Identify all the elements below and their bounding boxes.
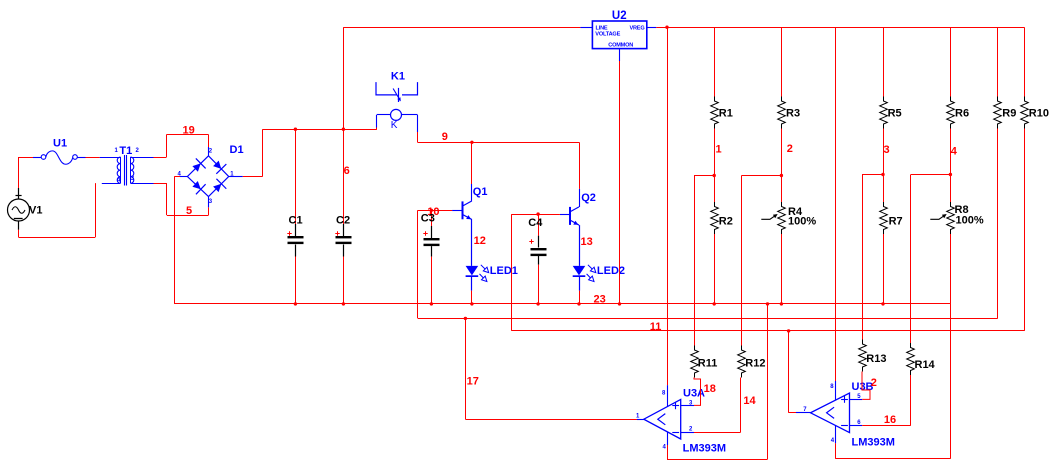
svg-text:V1: V1 [29,205,42,217]
svg-text:C2: C2 [336,215,350,227]
svg-text:12: 12 [474,235,486,247]
svg-text:14: 14 [743,395,756,407]
svg-text:C1: C1 [289,215,303,227]
svg-text:5: 5 [186,205,192,217]
svg-text:R9: R9 [1002,108,1016,120]
svg-text:LED2: LED2 [597,265,625,277]
svg-text:17: 17 [467,376,479,388]
svg-text:LM393M: LM393M [852,436,895,448]
svg-text:R7: R7 [889,216,903,228]
svg-text:100%: 100% [788,216,816,228]
svg-text:R1: R1 [719,108,733,120]
svg-text:100%: 100% [956,215,984,227]
svg-text:R5: R5 [888,108,902,120]
svg-text:U1: U1 [53,137,67,149]
svg-text:LED1: LED1 [490,265,518,277]
svg-text:1: 1 [716,144,722,156]
svg-text:Q1: Q1 [473,186,488,198]
svg-text:4: 4 [951,146,958,158]
svg-text:LINE: LINE [596,25,608,31]
svg-text:R14: R14 [915,359,936,371]
svg-text:R13: R13 [866,353,886,365]
svg-text:2: 2 [871,377,877,389]
svg-text:T1: T1 [119,145,132,157]
svg-text:R3: R3 [786,108,800,120]
svg-text:D1: D1 [230,144,244,156]
svg-text:C3: C3 [421,213,435,225]
svg-text:R2: R2 [719,216,733,228]
svg-text:R12: R12 [745,358,765,370]
svg-text:COMMON: COMMON [608,43,633,49]
svg-text:11: 11 [650,321,662,333]
svg-text:Q2: Q2 [581,192,596,204]
svg-text:3: 3 [884,144,890,156]
svg-text:9: 9 [442,131,448,143]
svg-text:R10: R10 [1029,108,1049,120]
svg-text:U2: U2 [612,10,627,22]
svg-text:K: K [391,120,398,131]
svg-text:23: 23 [594,293,606,305]
svg-text:6: 6 [344,165,350,177]
svg-text:LM393M: LM393M [683,443,726,455]
svg-text:K1: K1 [391,70,405,82]
svg-text:U3A: U3A [683,387,705,399]
svg-text:C4: C4 [528,217,543,229]
svg-text:13: 13 [581,236,593,248]
svg-text:R11: R11 [698,358,718,370]
svg-text:19: 19 [183,125,195,137]
svg-text:16: 16 [884,414,896,426]
svg-text:VREG: VREG [629,25,644,31]
svg-text:18: 18 [704,383,716,395]
svg-text:2: 2 [787,143,793,155]
svg-text:R6: R6 [955,108,969,120]
svg-text:VOLTAGE: VOLTAGE [595,32,620,38]
